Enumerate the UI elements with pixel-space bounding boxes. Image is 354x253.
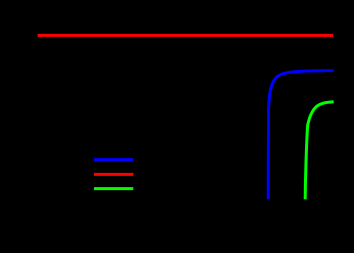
- blue knee curve (series 1): [268, 71, 334, 200]
- legend sample: red line: [94, 173, 133, 176]
- green knee curve (series 3): [305, 102, 334, 200]
- legend sample: green line: [94, 187, 133, 190]
- red constant line (series 2): [38, 34, 334, 37]
- legend sample: blue line: [94, 158, 133, 161]
